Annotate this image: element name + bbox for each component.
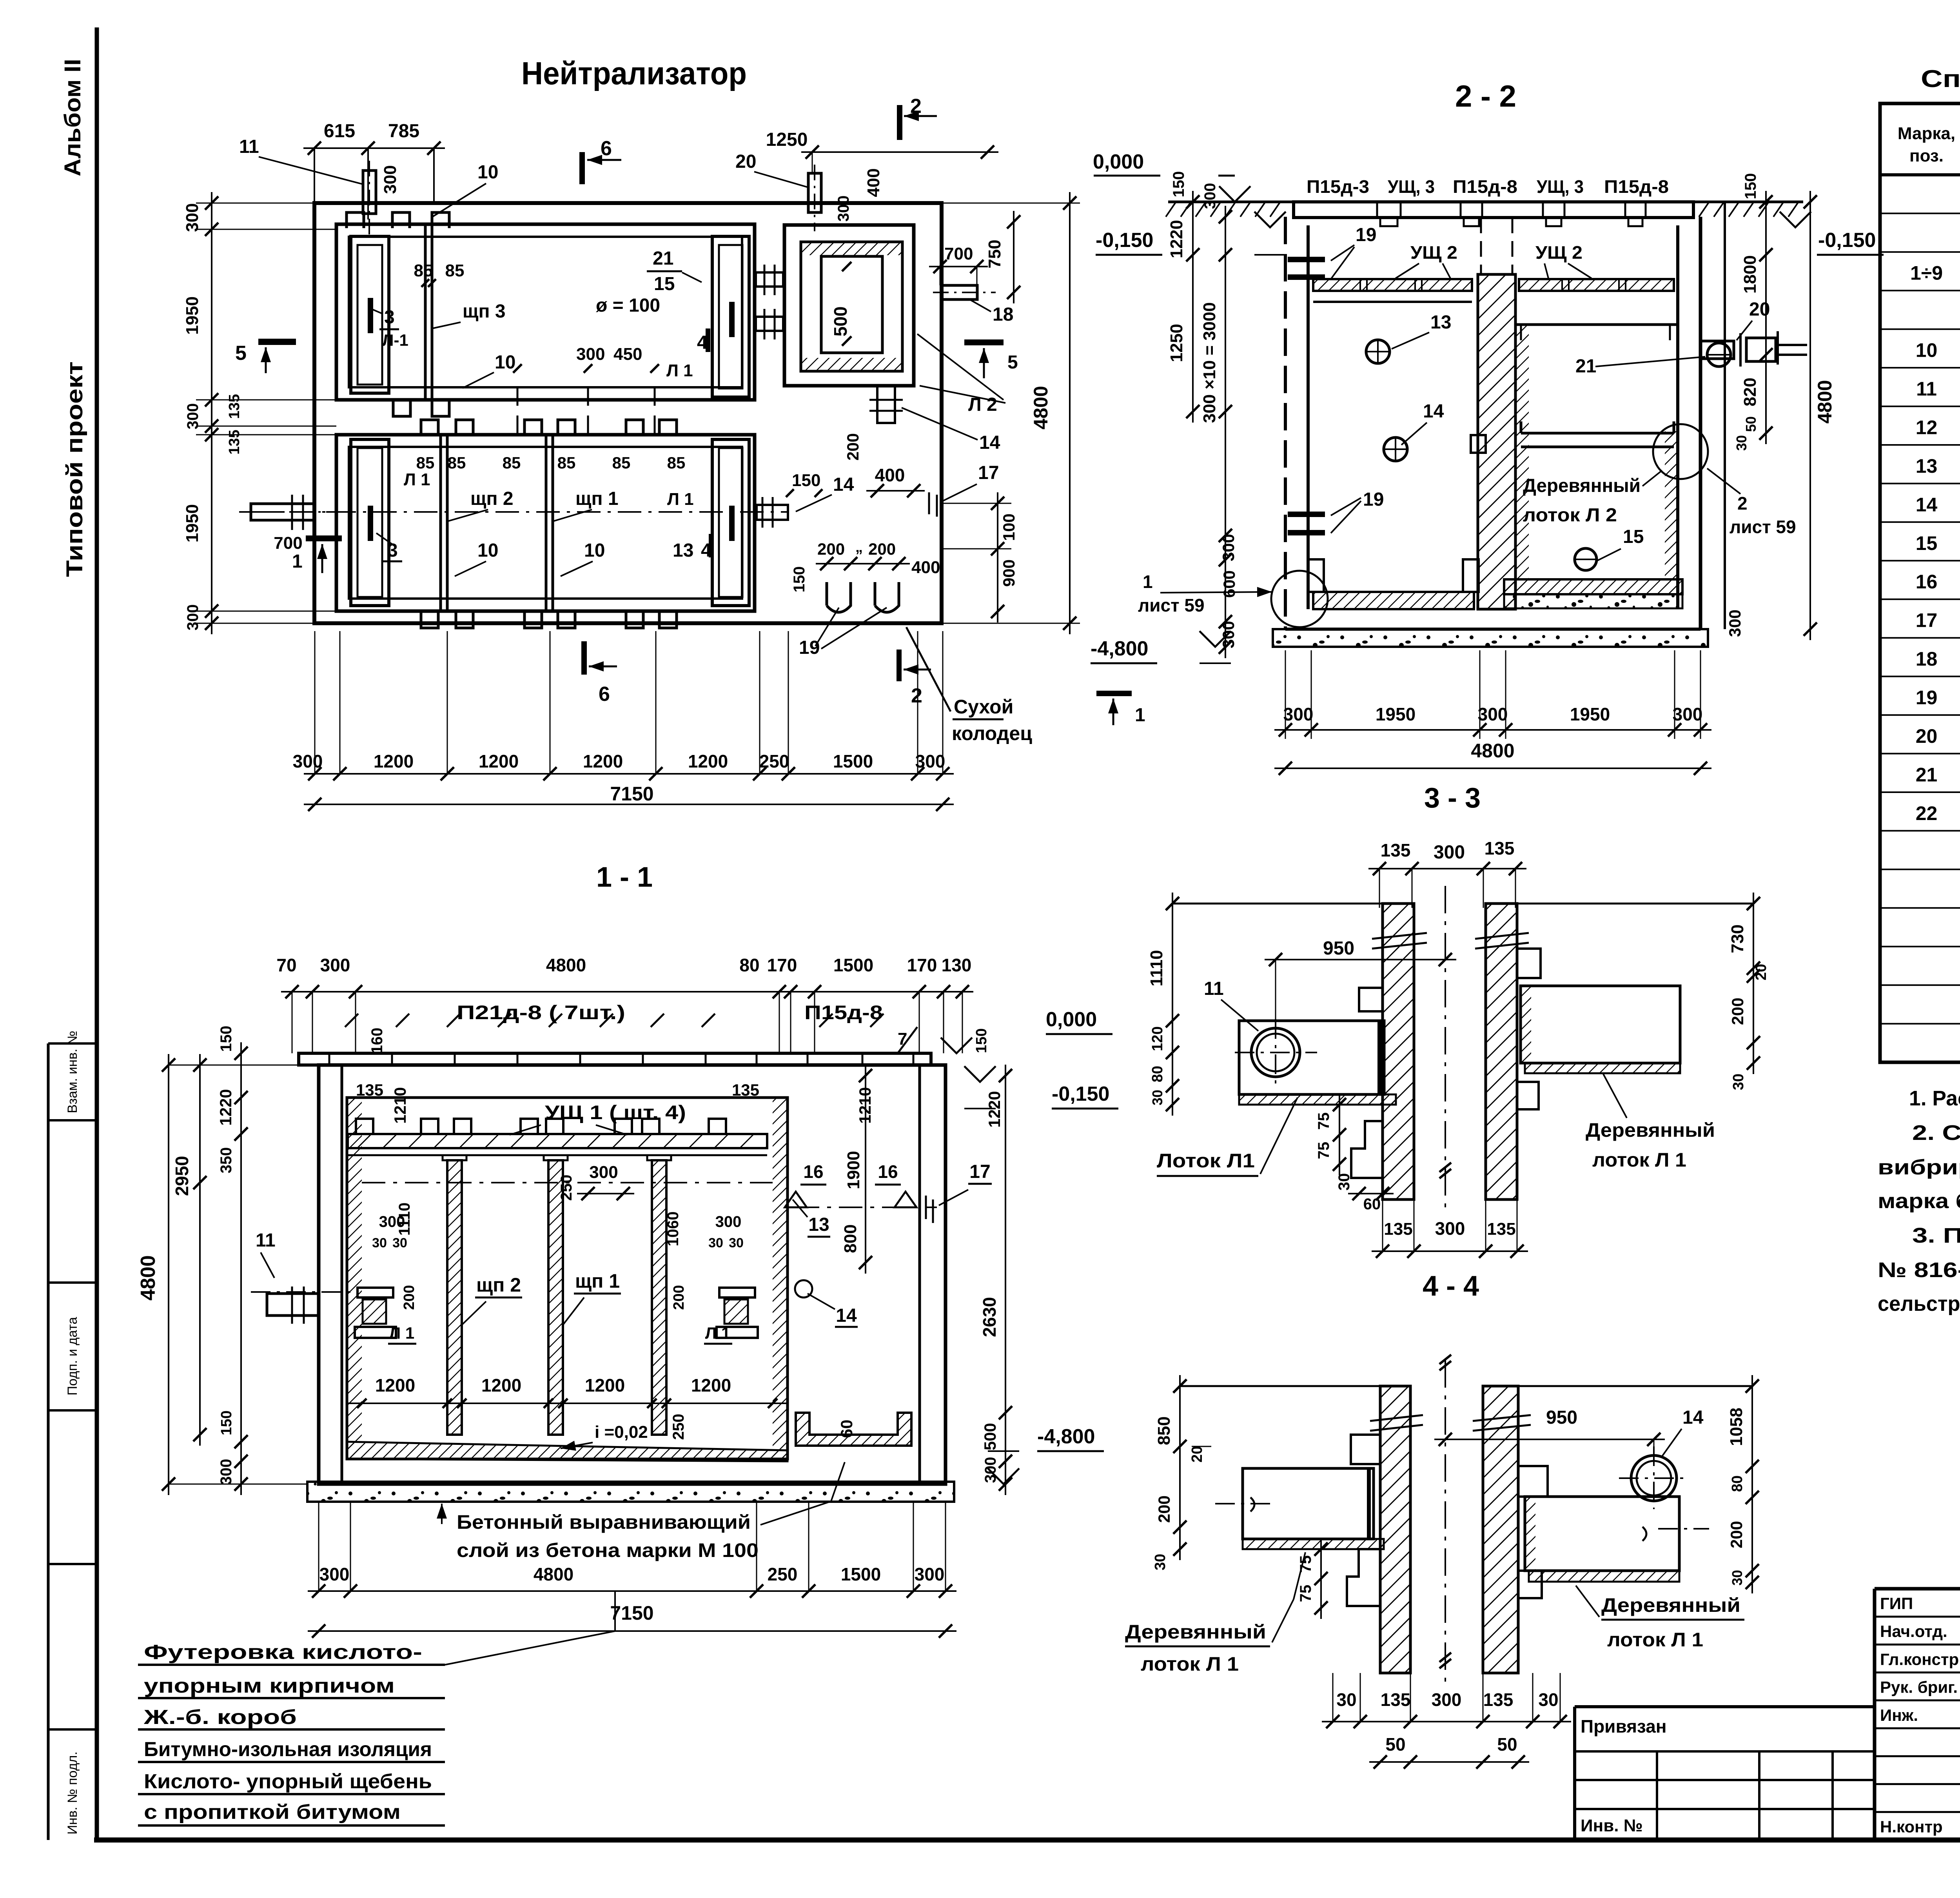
plan section flag 2 bottom <box>897 650 902 681</box>
plan right panel lower chamber <box>712 439 749 606</box>
svg-text:19: 19 <box>1363 489 1384 510</box>
svg-text:13: 13 <box>1916 455 1938 477</box>
svg-text:П15д-8: П15д-8 <box>1604 176 1669 197</box>
plan bracket symbols below upper chamber <box>393 401 410 416</box>
plan section flag 6 bottom <box>581 641 587 675</box>
svg-text:Спецификация элементов мон: Спецификация элементов монолитной констр… <box>1921 65 1960 93</box>
plan bracket symbols top wall <box>347 212 364 228</box>
plan left dim column <box>211 192 212 634</box>
plan connector pipes chamber to well <box>756 272 783 287</box>
svg-text:615: 615 <box>324 121 355 142</box>
svg-text:70: 70 <box>276 955 296 975</box>
plan bottom dim row 1 <box>304 773 954 775</box>
svg-text:150: 150 <box>791 566 808 593</box>
svg-text:80: 80 <box>1149 1066 1166 1082</box>
svg-text:4800: 4800 <box>546 955 586 975</box>
svg-text:200: 200 <box>1728 998 1747 1025</box>
svg-text:20: 20 <box>1189 1446 1205 1463</box>
section 1-1 lining hatch left <box>347 1098 362 1459</box>
svg-text:7150: 7150 <box>610 1602 653 1624</box>
svg-text:Гл.констр.: Гл.констр. <box>1880 1650 1960 1668</box>
svg-text:18: 18 <box>993 304 1013 325</box>
svg-text:14: 14 <box>836 1305 857 1326</box>
svg-text:135: 135 <box>732 1081 759 1099</box>
svg-text:7: 7 <box>898 1029 907 1049</box>
section 1-1 panel L1 left <box>358 1288 393 1297</box>
svg-text:1950: 1950 <box>1570 704 1610 724</box>
plan bracket symbols bottom wall <box>421 612 438 628</box>
svg-text:60: 60 <box>837 1420 856 1438</box>
svg-text:7150: 7150 <box>610 783 653 805</box>
svg-text:УЩ 2: УЩ 2 <box>1410 242 1457 263</box>
svg-text:Л 1: Л 1 <box>705 1324 731 1342</box>
section 4-4 right step profile <box>1518 1466 1548 1497</box>
svg-text:85: 85 <box>667 454 686 472</box>
svg-text:50: 50 <box>1497 1734 1517 1755</box>
svg-text:20: 20 <box>1753 964 1769 980</box>
section 3-3 dims 75 75 30 60 <box>1339 1094 1340 1175</box>
svg-text:20: 20 <box>1916 725 1938 747</box>
svg-text:0,000: 0,000 <box>1093 151 1144 173</box>
section 2-2 ground line <box>1168 201 1803 203</box>
svg-text:1500: 1500 <box>833 751 873 771</box>
section 3-3 left trough with pipe <box>1239 1021 1384 1094</box>
section 1-1 dash level right chamber <box>796 1207 937 1208</box>
svg-text:19: 19 <box>1916 687 1938 709</box>
svg-text:1÷9: 1÷9 <box>1910 262 1943 284</box>
svg-text:1200: 1200 <box>481 1375 521 1395</box>
section 1-1 top beam УЩ1 <box>348 1134 767 1148</box>
plan section flag 2 top <box>897 105 902 140</box>
svg-text:300: 300 <box>1201 183 1219 209</box>
svg-text:16: 16 <box>878 1161 898 1182</box>
section 1-1 left wall inner line <box>341 1065 343 1484</box>
svg-text:1200: 1200 <box>479 751 519 771</box>
svg-text:упорным кирпичом: упорным кирпичом <box>144 1675 395 1697</box>
svg-text:300: 300 <box>319 1564 350 1584</box>
svg-text:1 - 1: 1 - 1 <box>596 862 653 893</box>
svg-text:300: 300 <box>576 345 605 364</box>
svg-text:30: 30 <box>729 1236 744 1250</box>
svg-text:лоток Л 1: лоток Л 1 <box>1607 1629 1703 1651</box>
svg-text:200: 200 <box>868 540 896 558</box>
section 3-3 wall break marks <box>1372 933 1427 939</box>
svg-text:1220: 1220 <box>216 1089 235 1125</box>
plan pipe stub top left pos11 <box>363 171 376 214</box>
plan partition walls lower shchp1 shchp2 <box>439 435 442 611</box>
svg-text:30: 30 <box>1336 1173 1353 1191</box>
svg-text:Типовой проект: Типовой проект <box>62 361 87 577</box>
svg-text:3: 3 <box>387 540 398 561</box>
svg-text:2: 2 <box>1737 493 1748 514</box>
svg-text:50: 50 <box>1743 416 1759 432</box>
left margin inner line <box>47 1043 50 1840</box>
section 1-1 bottom total 7150 <box>308 1630 956 1632</box>
svg-text:600: 600 <box>1220 570 1238 598</box>
section 2-2 embed circles <box>1366 340 1390 363</box>
svg-text:135: 135 <box>1381 840 1411 860</box>
svg-text:14: 14 <box>1682 1407 1704 1428</box>
svg-text:1500: 1500 <box>841 1564 881 1584</box>
plan drain well L2 outer <box>784 225 914 386</box>
svg-text:1: 1 <box>1135 705 1145 726</box>
svg-text:№ 816-166 разработанного про: № 816-166 разработанного проектным инсти… <box>1878 1258 1960 1282</box>
svg-text:Марка,: Марка, <box>1898 124 1955 143</box>
plan U marks dry well floor <box>827 582 851 612</box>
svg-text:250: 250 <box>759 751 789 771</box>
svg-text:14: 14 <box>1423 401 1444 422</box>
section 4-4 pipe circle pos14 <box>1631 1455 1677 1501</box>
section 4-4 left wall hatched <box>1380 1386 1410 1673</box>
section 4-4 wall break marks <box>1370 1415 1423 1421</box>
plan bottom dim row 2 total 7150 <box>304 804 954 805</box>
section 3-3 pipe circle pos11 <box>1251 1028 1300 1077</box>
svg-text:17: 17 <box>978 463 999 483</box>
svg-text:16: 16 <box>1916 571 1938 593</box>
svg-text:300: 300 <box>1434 842 1465 863</box>
svg-text:2 - 2: 2 - 2 <box>1455 79 1516 113</box>
svg-text:950: 950 <box>1323 938 1354 959</box>
svg-text:1210: 1210 <box>391 1087 409 1123</box>
svg-text:30: 30 <box>1730 1074 1747 1090</box>
svg-text:300: 300 <box>715 1213 742 1230</box>
svg-text:с пропиткой битумом: с пропиткой битумом <box>144 1801 401 1824</box>
svg-text:Л 1: Л 1 <box>389 1324 415 1342</box>
svg-text:170: 170 <box>767 955 797 975</box>
svg-text:1. Расположение нейтрализато: 1. Расположение нейтрализатора см. черте… <box>1909 1087 1960 1110</box>
svg-text:250: 250 <box>768 1564 798 1584</box>
svg-text:-0,150: -0,150 <box>1052 1083 1109 1105</box>
svg-text:13: 13 <box>1430 312 1451 333</box>
svg-text:-4,800: -4,800 <box>1037 1425 1095 1448</box>
svg-text:300: 300 <box>184 403 201 430</box>
svg-text:УЩ, 3: УЩ, 3 <box>1537 176 1584 197</box>
title block outer top line <box>1875 1587 1960 1591</box>
svg-text:поз.: поз. <box>1909 146 1944 165</box>
svg-text:Футеровка кислото-: Футеровка кислото- <box>144 1641 422 1664</box>
section 2-2 right dim 4800 <box>1809 191 1811 640</box>
svg-text:15: 15 <box>654 274 675 294</box>
section 2-2 wooden trough L2 in right chamber <box>1521 432 1674 435</box>
section 1-1 slab tick marks <box>345 1014 358 1027</box>
svg-text:820: 820 <box>1740 377 1760 406</box>
svg-text:150: 150 <box>792 471 820 490</box>
svg-text:13: 13 <box>673 540 693 561</box>
svg-text:11: 11 <box>256 1230 276 1251</box>
svg-text:85: 85 <box>448 454 466 472</box>
svg-text:85: 85 <box>612 454 631 472</box>
svg-text:4800: 4800 <box>137 1255 160 1301</box>
svg-text:80: 80 <box>1729 1475 1746 1492</box>
svg-text:П21д-8 ( 7шт.): П21д-8 ( 7шт.) <box>457 1002 625 1023</box>
svg-text:300: 300 <box>1435 1218 1465 1239</box>
svg-text:30: 30 <box>372 1236 387 1250</box>
svg-text:4800: 4800 <box>1471 740 1514 762</box>
svg-text:21: 21 <box>1575 356 1596 377</box>
svg-text:11: 11 <box>1916 378 1937 400</box>
svg-text:85: 85 <box>503 454 521 472</box>
svg-text:1250: 1250 <box>1167 324 1186 362</box>
svg-text:Л 1: Л 1 <box>404 470 430 489</box>
svg-text:сельстрой ”.: сельстрой ”. <box>1878 1292 1960 1316</box>
section 1-1 lining hatch right side <box>773 1098 788 1459</box>
svg-text:135: 135 <box>356 1081 383 1099</box>
svg-text:14: 14 <box>833 474 854 495</box>
privyazan block <box>1575 1705 1875 1708</box>
svg-text:Лоток Л1: Лоток Л1 <box>1157 1150 1255 1172</box>
svg-text:21: 21 <box>653 248 673 269</box>
svg-text:слой из бетона марки М 100: слой из бетона марки М 100 <box>457 1539 759 1561</box>
svg-text:1: 1 <box>1143 572 1153 592</box>
svg-text:2: 2 <box>910 95 922 118</box>
svg-text:30: 30 <box>1538 1689 1558 1710</box>
svg-text:1110: 1110 <box>1147 950 1166 986</box>
svg-text:85: 85 <box>445 261 465 280</box>
svg-text:30: 30 <box>1733 435 1749 451</box>
svg-text:300: 300 <box>184 604 201 631</box>
svg-text:785: 785 <box>388 121 419 142</box>
svg-text:Нач.отд.: Нач.отд. <box>1880 1622 1947 1640</box>
svg-text:250: 250 <box>558 1175 575 1201</box>
svg-text:135: 135 <box>1485 838 1515 858</box>
plan flow axis dash-dot lower <box>251 511 788 513</box>
svg-text:500: 500 <box>830 307 851 337</box>
svg-text:30: 30 <box>1149 1090 1165 1105</box>
svg-text:300: 300 <box>915 751 946 771</box>
svg-text:300: 300 <box>183 203 202 232</box>
svg-text:300: 300 <box>589 1163 618 1182</box>
plan drain well L2 inner <box>821 256 882 353</box>
svg-text:300: 300 <box>835 196 852 222</box>
svg-text:400: 400 <box>875 465 905 485</box>
svg-text:2950: 2950 <box>172 1156 192 1196</box>
svg-text:-0,150: -0,150 <box>1096 229 1153 252</box>
plan outer wall <box>314 203 942 623</box>
svg-text:1060: 1060 <box>664 1212 682 1247</box>
svg-text:150: 150 <box>1742 173 1759 200</box>
svg-text:250: 250 <box>670 1414 687 1440</box>
section 2-2 detail circle 1 <box>1271 571 1328 627</box>
svg-text:1200: 1200 <box>688 751 728 771</box>
svg-text:3 - 3: 3 - 3 <box>1424 782 1481 814</box>
plan partition wall upper shchp3 <box>424 224 427 400</box>
section 2-2 center wall hidden edges dashed <box>1480 218 1482 274</box>
svg-text:300: 300 <box>218 1459 235 1485</box>
plan left panel lower chamber <box>351 439 389 606</box>
section 2-2 tank walls <box>1284 217 1287 629</box>
section 4-4 left trough <box>1243 1468 1374 1539</box>
svg-text:П15д-8: П15д-8 <box>804 1002 883 1023</box>
svg-text:П15д-8: П15д-8 <box>1453 176 1517 197</box>
svg-text:Деревянный: Деревянный <box>1601 1594 1740 1616</box>
svg-text:85: 85 <box>416 454 435 472</box>
svg-text:УЩ 1 ( шт. 4): УЩ 1 ( шт. 4) <box>545 1101 686 1123</box>
svg-text:4 - 4: 4 - 4 <box>1423 1270 1479 1302</box>
svg-text:УЩ, 3: УЩ, 3 <box>1388 176 1435 197</box>
section 3-3 right dims <box>1753 893 1754 1074</box>
svg-text:200: 200 <box>817 540 845 558</box>
svg-text:2630: 2630 <box>979 1297 1000 1337</box>
svg-text:11: 11 <box>239 136 259 157</box>
svg-text:1200: 1200 <box>585 1375 625 1395</box>
svg-text:350: 350 <box>218 1147 235 1174</box>
svg-text:1500: 1500 <box>833 955 873 975</box>
plan upper chamber inner wall <box>336 224 755 400</box>
sheet left border line <box>95 27 99 1840</box>
svg-text:20: 20 <box>1749 299 1770 320</box>
plan upper chamber lining <box>349 237 742 387</box>
svg-text:135: 135 <box>1381 1689 1411 1710</box>
svg-text:10: 10 <box>584 540 605 561</box>
svg-text:50: 50 <box>1385 1734 1405 1755</box>
section 1-1 right chamber trough <box>796 1413 911 1446</box>
section 3-3 left wall hatched <box>1383 904 1414 1199</box>
svg-text:30: 30 <box>1336 1689 1356 1710</box>
svg-text:700: 700 <box>274 533 302 553</box>
section 1-1 main chamber box <box>347 1098 788 1459</box>
plan section flag 5 left <box>258 339 296 345</box>
plan left panel upper chamber <box>351 236 389 393</box>
plan drain well L2 middle <box>801 242 902 371</box>
svg-text:Н.контр: Н.контр <box>1880 1818 1943 1836</box>
svg-text:200: 200 <box>671 1285 687 1310</box>
svg-text:150: 150 <box>1170 171 1187 198</box>
svg-text:Деревянный: Деревянный <box>1523 475 1641 496</box>
section 3-3 right step profile <box>1517 949 1541 978</box>
svg-text:300: 300 <box>381 165 400 194</box>
plan pipe stub left pos11 lower <box>251 504 314 520</box>
svg-text:20: 20 <box>735 151 756 172</box>
svg-text:„: „ <box>855 539 863 555</box>
svg-text:18: 18 <box>1916 648 1938 670</box>
svg-text:13: 13 <box>808 1214 829 1235</box>
svg-text:75: 75 <box>1315 1142 1332 1159</box>
svg-text:200: 200 <box>1155 1495 1173 1523</box>
section 2-2 right chamber right lining band <box>1665 431 1677 595</box>
plan section flag 1 left <box>306 535 342 541</box>
plan section flag 6 top <box>579 152 585 184</box>
svg-text:-0,150: -0,150 <box>1818 229 1876 252</box>
svg-text:Рук. бриг.: Рук. бриг. <box>1880 1678 1958 1697</box>
svg-text:щп 1: щп 1 <box>575 1270 620 1292</box>
plan pipe stub top right pos20 <box>808 173 821 212</box>
svg-text:П15д-3: П15д-3 <box>1307 176 1369 197</box>
svg-text:Нейтрализатор: Нейтрализатор <box>521 56 747 91</box>
svg-text:160: 160 <box>368 1028 386 1054</box>
svg-text:150: 150 <box>973 1028 990 1053</box>
svg-text:5: 5 <box>1007 352 1018 373</box>
svg-text:135: 135 <box>1487 1219 1515 1239</box>
svg-text:2. Стены и днище нейтрализ: 2. Стены и днище нейтрализатора выполняю… <box>1912 1121 1960 1145</box>
section 2-2 bottom dims <box>1285 650 1286 739</box>
section 2-2 detail circle 2 <box>1653 424 1708 479</box>
svg-text:750: 750 <box>985 240 1004 268</box>
svg-text:400: 400 <box>911 558 940 577</box>
svg-text:800: 800 <box>841 1224 860 1253</box>
section 1-1 floor hatched sloped <box>347 1442 788 1461</box>
sheet bottom border line <box>94 1838 1960 1843</box>
svg-text:4800: 4800 <box>1030 386 1052 429</box>
section 4-4 right trough <box>1525 1497 1679 1571</box>
svg-text:УЩ 2: УЩ 2 <box>1535 242 1583 263</box>
svg-text:6: 6 <box>601 137 612 160</box>
svg-text:19: 19 <box>799 637 820 658</box>
svg-text:2: 2 <box>911 684 922 707</box>
section 1-1 tank outline <box>319 1065 946 1484</box>
svg-text:1950: 1950 <box>183 504 202 543</box>
section 3-3 top reference lines <box>1172 903 1383 905</box>
svg-text:4800: 4800 <box>1814 380 1836 423</box>
svg-text:лист 59: лист 59 <box>1730 517 1796 537</box>
svg-text:i =0,02: i =0,02 <box>595 1423 648 1442</box>
section 1-1 panel L1 right <box>719 1288 755 1297</box>
svg-text:130: 130 <box>942 955 972 975</box>
section 4-4 left step profile <box>1351 1435 1380 1464</box>
svg-text:Л 2: Л 2 <box>968 394 997 415</box>
svg-text:щп 2: щп 2 <box>470 488 514 509</box>
section 2-2 top slab <box>1294 202 1693 218</box>
svg-text:1: 1 <box>292 551 303 572</box>
section 2-2 right chamber top edge <box>1515 323 1677 326</box>
section 2-2 right chamber lining hatch <box>1515 325 1529 595</box>
svg-text:Альбом II: Альбом II <box>60 59 85 176</box>
svg-text:1950: 1950 <box>1376 704 1416 724</box>
svg-text:30: 30 <box>1152 1554 1169 1570</box>
section 1-1 material leader <box>445 1631 615 1665</box>
section 1-1 top dim line <box>281 991 973 993</box>
plan section flag 5 right <box>964 339 1004 345</box>
svg-text:щп 3: щп 3 <box>463 301 506 322</box>
svg-text:колодец: колодец <box>952 722 1032 744</box>
svg-text:вибрированного бетона марки: вибрированного бетона марки М200. По вод… <box>1878 1156 1960 1179</box>
svg-text:Бетонный выравнивающий: Бетонный выравнивающий <box>457 1511 751 1533</box>
section 4-4 right dims <box>1751 1375 1753 1593</box>
svg-text:300: 300 <box>320 955 350 975</box>
svg-text:150: 150 <box>218 1410 235 1435</box>
svg-text:300: 300 <box>1726 610 1744 637</box>
svg-text:300: 300 <box>1432 1689 1462 1710</box>
section 2-2 center wall hatched <box>1478 274 1515 609</box>
svg-text:15: 15 <box>1623 526 1644 547</box>
svg-text:170: 170 <box>907 955 937 975</box>
svg-text:Л 1: Л 1 <box>666 361 693 380</box>
svg-text:10: 10 <box>495 352 515 373</box>
spec table grid <box>1880 103 1960 1062</box>
svg-text:100: 100 <box>1000 514 1018 541</box>
svg-text:1950: 1950 <box>183 296 202 335</box>
plan lower chamber inner wall <box>336 435 755 611</box>
svg-text:Сухой: Сухой <box>954 696 1013 718</box>
svg-text:12: 12 <box>1916 416 1938 438</box>
section 2-2 right chamber floor <box>1504 579 1682 594</box>
plan drain well L2 hatched bands <box>801 242 902 255</box>
section 1-1 right wall inner line <box>918 1065 921 1484</box>
section 2-2 right excavation line <box>1724 202 1726 629</box>
section 1-1 left dim 4800 <box>168 1054 169 1495</box>
svg-text:Ж.-б. короб: Ж.-б. короб <box>143 1706 297 1729</box>
section 1-1 partition walls hatched <box>447 1160 462 1435</box>
section 1-1 left dims 2950 etc <box>199 1054 201 1446</box>
section 3-3 left step profile <box>1359 988 1383 1011</box>
svg-text:5: 5 <box>235 342 247 365</box>
section 2-2 interior lintel strips УЩ2 <box>1313 279 1472 291</box>
plan embed 14 lower right <box>757 505 788 520</box>
plan lower chamber lining <box>349 447 742 599</box>
svg-text:22: 22 <box>1916 802 1938 824</box>
svg-text:30: 30 <box>708 1236 723 1250</box>
plan right dim 4800 <box>1069 192 1071 634</box>
svg-text:1200: 1200 <box>691 1375 731 1395</box>
